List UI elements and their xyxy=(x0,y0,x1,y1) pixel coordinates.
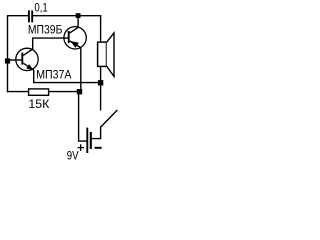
svg-text:МП37А: МП37А xyxy=(36,67,71,81)
svg-text:0,1: 0,1 xyxy=(34,1,48,15)
svg-text:МП39Б: МП39Б xyxy=(28,23,63,37)
svg-text:9V: 9V xyxy=(67,148,79,162)
svg-text:15К: 15К xyxy=(28,97,49,111)
